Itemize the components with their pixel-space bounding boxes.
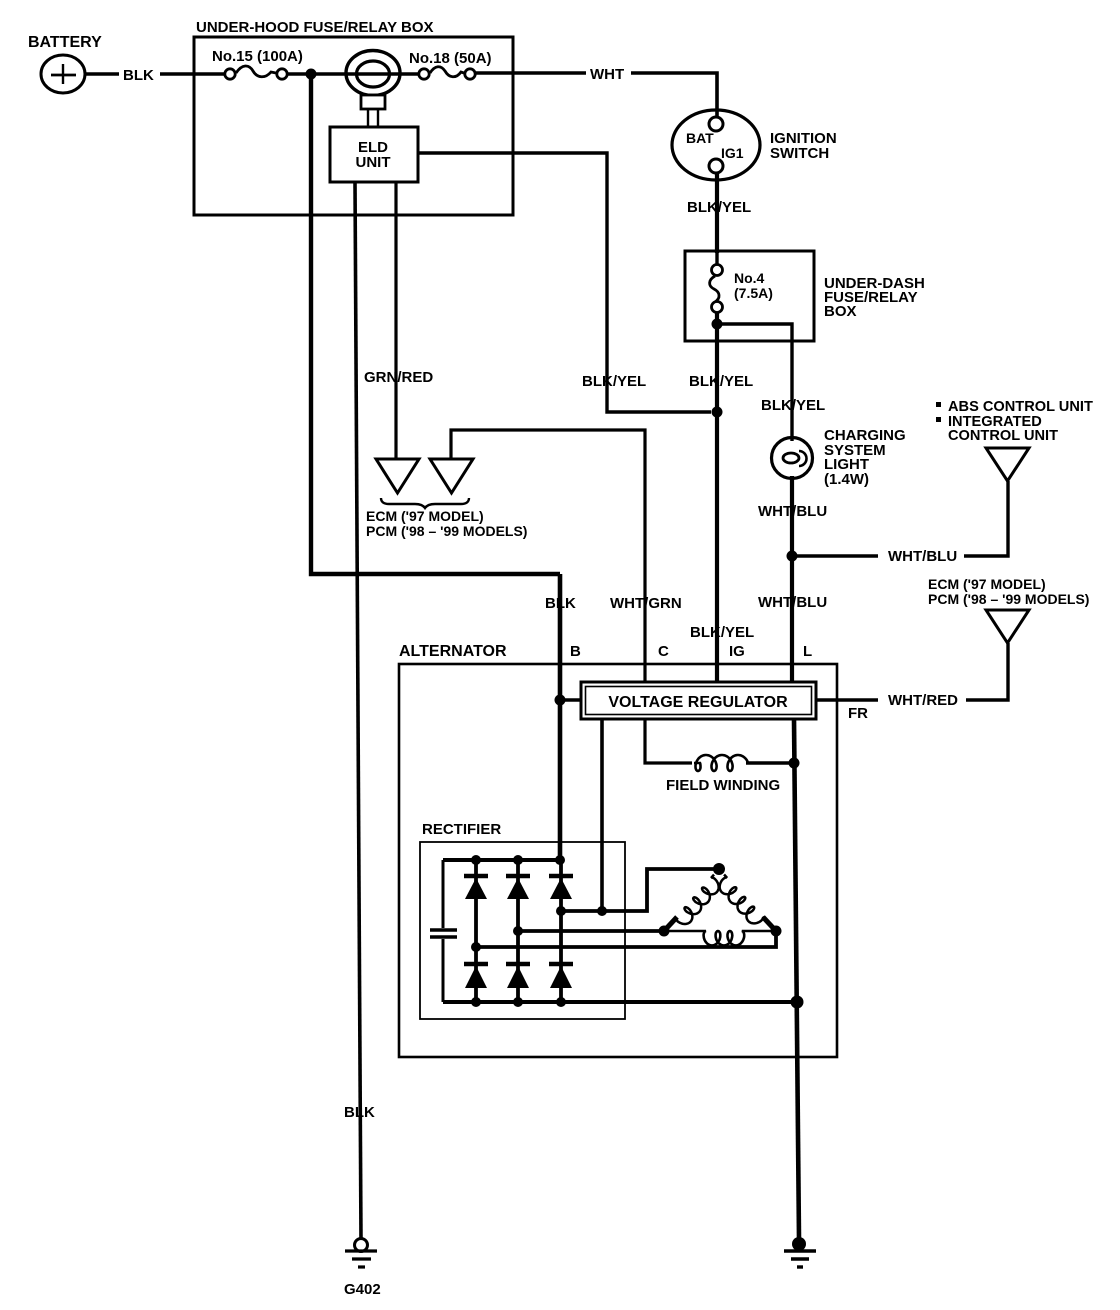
svg-text:WHT/RED: WHT/RED xyxy=(888,692,958,709)
svg-text:UNDER-HOOD FUSE/RELAY BOX: UNDER-HOOD FUSE/RELAY BOX xyxy=(196,19,434,36)
wire L vertical to ground xyxy=(794,719,799,1239)
alternator box xyxy=(399,664,837,1057)
wire field winding to L wire xyxy=(746,761,794,765)
under-hood fuse/relay box xyxy=(194,37,513,215)
charging system light bulb xyxy=(772,438,813,479)
diode D1 xyxy=(464,876,488,899)
wire regulator bottom to rectifier (x602) xyxy=(600,719,604,911)
wire charging light to L terminal xyxy=(790,476,794,682)
wire fuse No.18 to WHT label xyxy=(476,71,586,74)
wire regulator to field winding xyxy=(645,719,692,763)
svg-text:B: B xyxy=(570,643,581,660)
node top bus junctions xyxy=(471,855,481,865)
svg-text:ALTERNATOR: ALTERNATOR xyxy=(399,643,507,660)
rectifier diode column 3 xyxy=(559,860,563,1002)
diode D6 xyxy=(549,964,573,988)
wire B vertical xyxy=(558,574,563,862)
fuse No.4 (7.5A) xyxy=(710,253,723,313)
svg-text:C: C xyxy=(658,643,669,660)
svg-text:BLK/YEL: BLK/YEL xyxy=(582,373,646,390)
rectifier diode column 2 xyxy=(516,860,520,1002)
wire ECM connector to FR xyxy=(966,643,1008,700)
wire fuse No.15 to toroid and fuse No.18 xyxy=(288,72,419,76)
svg-text:BLK: BLK xyxy=(344,1104,375,1121)
diode D3 xyxy=(549,876,573,899)
node delta top vertex xyxy=(713,863,725,875)
connector to ABS control unit xyxy=(986,448,1029,481)
stator delta winding xyxy=(659,863,782,945)
wire WHT label to ignition switch xyxy=(631,73,717,118)
svg-text:UNIT: UNIT xyxy=(356,154,391,171)
wire WHT/RED label to regulator FR xyxy=(816,698,878,701)
svg-text:IG1: IG1 xyxy=(721,145,744,161)
battery B1 xyxy=(41,55,85,93)
connector to ECM (WHT/GRN) xyxy=(430,459,473,493)
fuse No.15 (100A) xyxy=(225,66,287,79)
ELD unit box xyxy=(330,127,418,182)
svg-text:PCM ('98 – '99 MODELS): PCM ('98 – '99 MODELS) xyxy=(928,591,1089,607)
connector to ECM (GRN/RED) xyxy=(376,459,419,493)
label ABS CONTROL UNIT / INTEGRATED CONTROL UNIT xyxy=(936,402,941,407)
diode D2 xyxy=(506,876,530,899)
svg-text:GRN/RED: GRN/RED xyxy=(364,369,433,386)
svg-text:WHT/BLU: WHT/BLU xyxy=(758,594,827,611)
node delta bottom-left xyxy=(659,926,670,937)
node B regulator junction xyxy=(555,695,566,706)
ignition switch SW1 xyxy=(672,110,760,180)
wire battery to BLK label xyxy=(85,72,119,75)
svg-text:VOLTAGE REGULATOR: VOLTAGE REGULATOR xyxy=(608,694,788,711)
stator coil bottom xyxy=(664,931,776,945)
svg-text:BLK: BLK xyxy=(123,67,154,84)
svg-text:No.4: No.4 xyxy=(734,270,765,286)
fuse No.18 (50A) xyxy=(419,67,475,79)
wire ELD right pin to IG junction xyxy=(418,153,711,412)
node phase taps xyxy=(556,906,566,916)
svg-text:WHT/GRN: WHT/GRN xyxy=(610,595,682,612)
diode D4 xyxy=(464,964,488,988)
ELD toroid sensor xyxy=(346,51,400,129)
svg-text:BLK/YEL: BLK/YEL xyxy=(687,199,751,216)
svg-text:ABS CONTROL UNIT: ABS CONTROL UNIT xyxy=(948,399,1093,415)
svg-text:No.18 (50A): No.18 (50A) xyxy=(409,50,492,67)
field winding L1 xyxy=(694,755,748,771)
svg-text:IG: IG xyxy=(729,643,745,660)
wire B to regulator left xyxy=(560,698,581,702)
wire ELD left pin BLK to ground G402 xyxy=(355,182,361,1240)
connector to ECM/PCM (FR) xyxy=(986,610,1029,643)
node bottom bus junctions xyxy=(471,997,481,1007)
wire fuse No.4 junction to charging light xyxy=(717,324,792,441)
diode D5 xyxy=(506,964,530,988)
wire BLK label to fuse No.15 xyxy=(160,72,224,75)
rectifier box xyxy=(420,842,625,1019)
stator coil left xyxy=(664,917,677,931)
rectifier diode column 1 xyxy=(474,860,478,1002)
under-dash fuse/relay box xyxy=(685,251,814,341)
wire phase 2 to delta bottom-left xyxy=(518,929,664,933)
svg-text:BLK/YEL: BLK/YEL xyxy=(689,373,753,390)
node WHT/BLU branch junction xyxy=(787,551,798,562)
svg-text:SWITCH: SWITCH xyxy=(770,145,829,162)
node fuse No.4 output junction xyxy=(712,319,723,330)
wire ignition to under-dash box xyxy=(715,173,719,253)
svg-text:BATTERY: BATTERY xyxy=(28,34,102,51)
svg-text:ECM ('97 MODEL): ECM ('97 MODEL) xyxy=(366,508,484,524)
svg-text:BLK/YEL: BLK/YEL xyxy=(690,624,754,641)
wire phase 1 to delta bottom-right xyxy=(476,934,776,947)
wire WHT/BLU label to ABS connector xyxy=(964,481,1008,556)
brace ECM connectors xyxy=(381,498,469,508)
svg-text:FIELD WINDING: FIELD WINDING xyxy=(666,777,780,794)
voltage regulator box xyxy=(581,682,816,719)
rectifier bottom bus xyxy=(443,1000,797,1004)
svg-text:BLK/YEL: BLK/YEL xyxy=(761,397,825,414)
svg-text:CONTROL UNIT: CONTROL UNIT xyxy=(948,428,1058,444)
svg-text:WHT/BLU: WHT/BLU xyxy=(758,503,827,520)
wire triangle2 to C terminal WHT/GRN xyxy=(451,430,645,682)
svg-text:FR: FR xyxy=(848,705,868,722)
svg-text:ECM ('97 MODEL): ECM ('97 MODEL) xyxy=(928,576,1046,592)
node ELD wire joins IG wire xyxy=(712,407,723,418)
svg-text:PCM ('98 – '99 MODELS): PCM ('98 – '99 MODELS) xyxy=(366,523,527,539)
svg-text:No.15 (100A): No.15 (100A) xyxy=(212,48,303,65)
svg-text:RECTIFIER: RECTIFIER xyxy=(422,821,501,838)
node field winding / L junction xyxy=(789,758,800,769)
rectifier top bus xyxy=(443,858,560,862)
svg-text:(1.4W): (1.4W) xyxy=(824,471,869,488)
node delta bottom-right xyxy=(771,926,782,937)
svg-text:BAT: BAT xyxy=(686,130,714,146)
ground (alternator) xyxy=(784,1237,816,1267)
wire ELD GRN/RED pin to ECM connector xyxy=(394,182,397,458)
wire fuse No.4 to IG terminal xyxy=(715,313,719,682)
ground G402 xyxy=(345,1239,377,1268)
svg-text:BOX: BOX xyxy=(824,303,857,320)
wire phase 3 to delta top xyxy=(561,869,716,911)
svg-text:(7.5A): (7.5A) xyxy=(734,285,773,301)
svg-text:L: L xyxy=(803,643,812,660)
svg-text:WHT: WHT xyxy=(590,66,624,83)
node junction at No.15 output xyxy=(306,69,317,80)
capacitor C1 xyxy=(430,860,457,1002)
wire junction to ABS control unit xyxy=(792,554,878,557)
svg-text:G402: G402 xyxy=(344,1281,381,1298)
svg-text:WHT/BLU: WHT/BLU xyxy=(888,548,957,565)
wire left vertical from No.15 junction to B xyxy=(311,74,560,574)
stator coil right xyxy=(763,917,776,931)
